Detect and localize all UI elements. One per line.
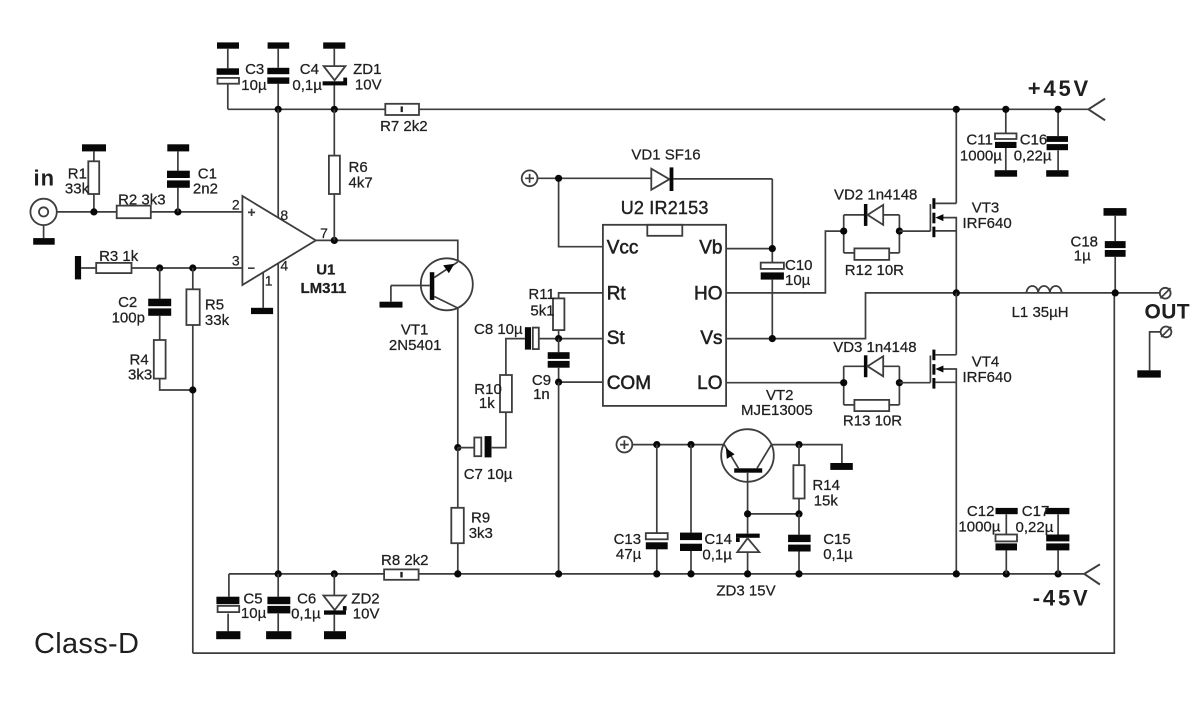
capacitor C3 — [217, 49, 267, 110]
resistor R9 3k3 — [451, 448, 493, 574]
svg-text:2N5401: 2N5401 — [389, 337, 442, 354]
svg-text:VT1: VT1 — [401, 321, 429, 338]
svg-text:C17: C17 — [1022, 503, 1050, 520]
OUT terminal hot — [1160, 288, 1171, 299]
svg-text:LM311: LM311 — [301, 280, 347, 297]
svg-text:3k3: 3k3 — [128, 366, 152, 383]
svg-text:10V: 10V — [353, 605, 380, 622]
capacitor C14 0,1µ — [680, 445, 732, 574]
capacitor C1 2n2 — [167, 151, 218, 212]
svg-text:St: St — [607, 328, 626, 349]
svg-text:MJE13005: MJE13005 — [741, 402, 813, 419]
svg-text:LO: LO — [697, 373, 722, 394]
svg-text:IRF640: IRF640 — [963, 215, 1012, 232]
capacitor C13 47µ — [614, 445, 668, 574]
IC U2 IR2153 — [603, 198, 726, 406]
terminal + VT2 feed — [617, 437, 633, 453]
svg-text:47µ: 47µ — [616, 546, 642, 563]
svg-text:8: 8 — [280, 207, 288, 223]
capacitor C9 1n — [532, 339, 570, 403]
node rail/C4/pin8 — [275, 106, 282, 113]
transistor VT1 2N5401 — [389, 258, 473, 354]
op-amp U1 LM311 — [242, 196, 346, 297]
diode VD2 1n4148 — [834, 186, 917, 253]
node VD2 left — [840, 228, 847, 235]
svg-text:in: in — [34, 165, 56, 190]
OUT terminal return — [1137, 327, 1171, 378]
svg-text:R12 10R: R12 10R — [845, 262, 904, 279]
svg-text:1k: 1k — [479, 395, 495, 412]
node output/C18 — [1112, 289, 1119, 296]
node rail/C11 — [1002, 106, 1009, 113]
ground at VT2 collector — [830, 463, 853, 470]
svg-text:Rt: Rt — [607, 283, 627, 304]
node St/C8/R11 — [555, 335, 562, 342]
svg-text:0,1µ: 0,1µ — [292, 77, 322, 94]
svg-text:ZD3 15V: ZD3 15V — [716, 583, 775, 600]
zener diode ZD2 10V — [323, 574, 379, 639]
svg-text:C2: C2 — [118, 294, 137, 311]
node rail/ZD1/R6 — [331, 106, 338, 113]
capacitor C10 10µ — [761, 257, 813, 339]
svg-text:C16: C16 — [1020, 132, 1048, 149]
svg-text:0,1µ: 0,1µ — [291, 606, 321, 623]
input connector — [30, 199, 56, 245]
svg-text:R11: R11 — [528, 286, 554, 303]
node C7 — [454, 444, 461, 451]
resistor R12 10R — [844, 248, 904, 279]
resistor R10 1k — [474, 339, 525, 413]
ground above C4 — [268, 42, 290, 48]
svg-text:+45V: +45V — [1028, 76, 1091, 101]
svg-text:2: 2 — [232, 197, 240, 213]
svg-text:7: 7 — [320, 225, 328, 241]
svg-text:R14: R14 — [812, 477, 840, 494]
svg-text:VT3: VT3 — [972, 199, 1000, 216]
svg-text:C11: C11 — [966, 132, 992, 149]
node output/VT3 source — [953, 289, 960, 296]
svg-text:C8 10µ: C8 10µ — [474, 321, 523, 338]
capacitor C2 100p — [112, 268, 172, 340]
zener diode ZD3 15V — [716, 534, 775, 600]
resistor R1 33k — [65, 151, 99, 212]
node R14 top — [795, 441, 802, 448]
svg-text:IRF640: IRF640 — [963, 369, 1012, 386]
capacitor C7 10µ — [458, 412, 513, 483]
transistor VT3 IRF640 — [930, 109, 1011, 293]
rail junction nodes — [275, 570, 282, 577]
capacitor C12 1000µ — [958, 503, 1017, 574]
svg-text:VT4: VT4 — [972, 353, 1000, 370]
diode VD1 SF16 — [631, 146, 772, 191]
svg-text:Vs: Vs — [700, 328, 722, 349]
svg-text:U1: U1 — [316, 261, 335, 278]
svg-text:C3: C3 — [245, 61, 264, 78]
ground above R1 — [82, 144, 106, 151]
node R6/output — [331, 237, 338, 244]
wire input node — [57, 211, 243, 213]
node C14 top — [687, 441, 694, 448]
svg-text:0,22µ: 0,22µ — [1014, 148, 1052, 165]
node COM/C9 — [555, 379, 562, 386]
wire COM — [559, 381, 603, 383]
wire inverting input — [81, 267, 242, 269]
svg-text:2n2: 2n2 — [193, 181, 218, 198]
zener diode ZD1 10V — [323, 49, 382, 110]
svg-text:Vcc: Vcc — [607, 238, 639, 259]
+45V rail connector — [1028, 76, 1105, 120]
wire negative rail — [229, 573, 1084, 575]
node R14 bottom — [795, 510, 802, 517]
-45V rail connector — [1033, 564, 1100, 610]
svg-text:0,22µ: 0,22µ — [1016, 519, 1054, 536]
resistor R6 4k7 — [329, 109, 373, 240]
svg-text:L1 35µH: L1 35µH — [1012, 304, 1069, 321]
ground above C1 — [167, 144, 189, 151]
pin 1 ground — [251, 272, 273, 314]
svg-text:0,1µ: 0,1µ — [823, 546, 853, 563]
svg-text:33k: 33k — [65, 181, 90, 198]
capacitor C18 1µ — [1071, 208, 1127, 293]
wire Vs — [726, 293, 1160, 339]
capacitor C5 10µ — [216, 574, 266, 639]
svg-text:C7 10µ: C7 10µ — [464, 466, 513, 483]
ground above ZD1 — [323, 42, 345, 48]
wire Vb — [726, 248, 772, 250]
svg-text:10V: 10V — [355, 76, 382, 93]
svg-text:HO: HO — [694, 283, 723, 304]
svg-text:R7 2k2: R7 2k2 — [380, 118, 428, 135]
terminal R3 left — [75, 256, 81, 279]
diode VD3 1n4148 — [833, 339, 916, 405]
capacitor C17 0,22µ — [1016, 503, 1070, 574]
svg-text:4: 4 — [280, 258, 288, 274]
svg-text:1µ: 1µ — [1074, 247, 1091, 264]
svg-text:100p: 100p — [112, 309, 145, 326]
node VD2 right — [896, 228, 903, 235]
resistor R13 10R — [843, 400, 902, 430]
svg-text:Class-D: Class-D — [34, 628, 139, 660]
svg-text:10µ: 10µ — [241, 77, 267, 94]
terminal +Vcc circle — [522, 170, 538, 186]
wire VT3 gate — [899, 230, 930, 232]
wire VD1 to Vb/C10 — [771, 179, 773, 263]
node R4/R5 feedback — [189, 386, 196, 393]
svg-text:1n: 1n — [533, 386, 550, 403]
capacitor C15 0,1µ — [788, 514, 853, 574]
transistor VT4 IRF640 — [930, 293, 1011, 574]
wire St — [559, 338, 603, 340]
svg-text:5k1: 5k1 — [530, 302, 554, 319]
svg-text:C12: C12 — [967, 503, 995, 520]
svg-text:R13 10R: R13 10R — [843, 413, 902, 430]
svg-text:VD1 SF16: VD1 SF16 — [631, 146, 700, 163]
svg-text:0,1µ: 0,1µ — [702, 546, 732, 563]
svg-text:R6: R6 — [349, 159, 368, 176]
resistor R5 33k — [186, 268, 229, 653]
svg-text:-45V: -45V — [1033, 586, 1091, 611]
node base/ZD3 — [744, 510, 751, 517]
capacitor C8 10µ — [474, 321, 559, 350]
node VD3 right — [896, 379, 903, 386]
svg-text:15k: 15k — [814, 492, 839, 509]
svg-text:VD3 1n4148: VD3 1n4148 — [833, 339, 916, 356]
svg-text:U2 IR2153: U2 IR2153 — [621, 198, 709, 218]
capacitor C4 — [267, 49, 322, 110]
wire bottom border — [193, 293, 1115, 653]
transistor VT2 MJE13005 — [721, 387, 813, 482]
svg-text:3: 3 — [232, 252, 240, 268]
node Vcc — [555, 175, 562, 182]
capacitor C16 0,22µ — [1014, 109, 1069, 176]
resistor R3 1k — [96, 248, 139, 273]
svg-text:33k: 33k — [205, 312, 230, 329]
node VD3 left — [840, 379, 847, 386]
wire HO — [726, 231, 844, 293]
wire VT2 base node — [748, 473, 799, 534]
svg-text:1000µ: 1000µ — [958, 518, 1000, 535]
svg-text:4k7: 4k7 — [349, 175, 373, 192]
svg-text:VD2 1n4148: VD2 1n4148 — [834, 186, 917, 203]
wire LO — [726, 382, 844, 384]
node R5 — [189, 264, 196, 271]
svg-text:10µ: 10µ — [785, 272, 811, 289]
wire VT1 collector down — [457, 308, 459, 448]
svg-text:1000µ: 1000µ — [960, 148, 1002, 165]
node Vs/C10 — [769, 335, 776, 342]
capacitor C6 0,1µ — [266, 574, 321, 639]
node C13 top — [653, 441, 660, 448]
node C1/input — [174, 208, 181, 215]
resistor R4 3k3 — [128, 340, 193, 390]
node R1/input — [90, 208, 97, 215]
wire VT2 emitter feed — [632, 444, 724, 446]
node Vb — [769, 245, 776, 252]
svg-text:COM: COM — [607, 373, 651, 394]
svg-text:3k3: 3k3 — [469, 525, 493, 542]
svg-text:R8 2k2: R8 2k2 — [381, 552, 429, 569]
pin 8 wire — [277, 109, 279, 217]
ground at VT1 base — [380, 286, 403, 308]
resistor R7 2k2 — [380, 104, 428, 135]
resistor R11 5k1 — [528, 286, 603, 339]
ground above C3 — [217, 42, 239, 48]
svg-text:OUT: OUT — [1145, 301, 1191, 324]
resistor R2 3k3 — [117, 191, 166, 218]
capacitor C11 1000µ — [960, 109, 1017, 176]
svg-text:R2 3k3: R2 3k3 — [118, 191, 166, 208]
node rail/C16 — [1055, 106, 1062, 113]
pin 7 output wire — [316, 240, 458, 260]
svg-text:1: 1 — [265, 272, 273, 288]
node C2 — [156, 264, 163, 271]
resistor R8 2k2 — [381, 552, 429, 580]
pin 4 wire to negative rail — [277, 263, 279, 574]
wire VT4 gate — [899, 382, 930, 384]
wire COM down to negative rail — [558, 382, 560, 574]
resistor R14 15k — [793, 445, 840, 514]
inductor L1 35µH — [1012, 286, 1069, 321]
svg-text:C4: C4 — [300, 61, 319, 78]
svg-text:R3 1k: R3 1k — [99, 248, 139, 265]
svg-text:Vb: Vb — [699, 238, 722, 259]
wire Vcc feed — [538, 178, 652, 246]
wire top rail left — [228, 108, 1089, 110]
wire VT2 collector — [771, 445, 842, 463]
svg-text:10µ: 10µ — [241, 605, 267, 622]
svg-text:C14: C14 — [704, 531, 732, 548]
node rail/VT3 drain — [953, 106, 960, 113]
